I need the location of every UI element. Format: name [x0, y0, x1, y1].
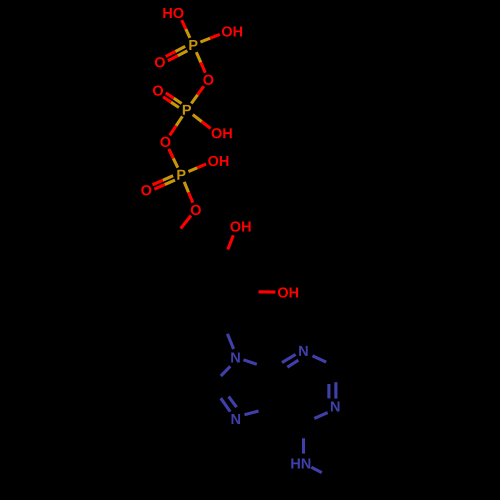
- double bond N3=C4 axis half: [282, 354, 296, 362]
- bond P1-O(H) top hydroxyl: [186, 29, 190, 38]
- atom label OH chain upper hydroxyl: [230, 221, 250, 231]
- double bond C8=N7 inner half: [229, 397, 237, 408]
- bond P3-O bridge: [173, 158, 178, 167]
- atom label HN N6-methylamino: [291, 459, 310, 469]
- atom O bridge P2-P3: [160, 137, 170, 147]
- atom O double-bonded to P2: [153, 85, 163, 95]
- bond N3-C2 half: [313, 356, 327, 362]
- bond N9-C8 half: [221, 366, 231, 376]
- bond C6-NH half: [302, 438, 305, 453]
- double bond P3=O: [165, 180, 175, 185]
- bond C3-OH lower half: [259, 290, 276, 293]
- bond NH-CH3 half: [311, 467, 322, 472]
- atom label OH chain lower hydroxyl: [278, 287, 298, 297]
- double bond N3=C4 inner half: [287, 360, 298, 367]
- atom label OH gamma-phosphate hydroxyl: [222, 26, 242, 36]
- double bond P2=O: [171, 102, 179, 107]
- double bond C2=N1 axis half: [334, 382, 337, 398]
- atom P3 alpha phosphorus: [177, 170, 185, 180]
- atom O double-bonded to P3: [141, 185, 151, 195]
- atom label HO gamma-phosphate hydroxyl: [163, 8, 183, 18]
- atom N9 purine: [231, 353, 240, 363]
- atom N3 purine: [299, 346, 308, 356]
- bond O ester-C5 half: [181, 216, 191, 229]
- bond P2-O bridge upper: [191, 95, 197, 104]
- bond N7-C5 half: [245, 411, 259, 415]
- atom O ester: [191, 205, 201, 215]
- bond N9-C4 half: [244, 360, 257, 365]
- double bond C2=N1 inner half: [327, 384, 330, 398]
- double bond P1=O: [178, 51, 188, 56]
- atom label OH alpha-phosphate hydroxyl: [208, 156, 228, 166]
- atom label OH beta-phosphate hydroxyl: [212, 128, 232, 138]
- bond C4-OH upper half: [228, 235, 234, 249]
- atom O bridge P1-P2: [203, 75, 213, 85]
- bond N9-CH2 chain half: [227, 334, 233, 349]
- atom P1 gamma phosphorus: [189, 40, 197, 50]
- bond P2-O(H) hydroxyl: [193, 115, 202, 122]
- atom O double-bonded to P1: [155, 57, 165, 67]
- atom N1 purine: [331, 402, 340, 412]
- double bond C8=N7 outer half: [221, 398, 230, 411]
- bond P2-O bridge lower: [176, 116, 182, 126]
- atom P2 beta phosphorus: [183, 105, 191, 115]
- bond P1-O bridge: [196, 52, 201, 62]
- bond P1-O(H) right hydroxyl: [200, 38, 210, 42]
- bond P3-O(H) hydroxyl: [188, 168, 197, 172]
- atom N7 purine: [232, 414, 241, 424]
- bond N1-C6 half: [314, 413, 327, 419]
- bond P3-O ester: [184, 182, 188, 192]
